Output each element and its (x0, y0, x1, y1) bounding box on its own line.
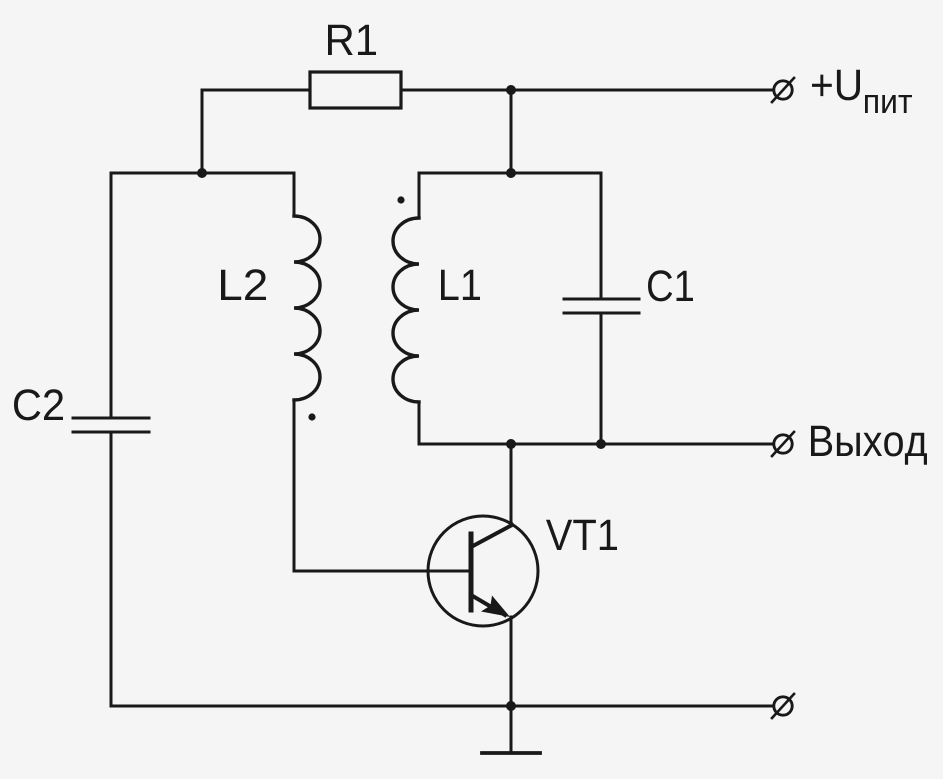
wire: tank top rail (L1 top to C1 top) (419, 172, 601, 175)
label VT1 (546, 520, 617, 550)
wire: top rail left segment (corner to R1) (202, 90, 310, 173)
terminal Выход (772, 432, 794, 456)
wire: emitter lead (510, 617, 513, 706)
wire: vertical from top rail down to tank top (510, 90, 513, 173)
capacitor C2 (73, 173, 149, 706)
inductor L1 (393, 173, 419, 444)
node: L1 polarity dot (397, 196, 404, 203)
node: junction dot at (511,444) (506, 439, 516, 449)
label C1 (648, 270, 693, 301)
ground (482, 706, 540, 753)
node: junction dot at (202,173) (197, 168, 207, 178)
capacitor C1 (564, 173, 639, 444)
label Выход (811, 426, 927, 465)
node: junction dot at (601,444) (596, 439, 606, 449)
label C2 (14, 389, 63, 420)
wire: left horizontal at y=173 (C2 top to L2 top) (111, 172, 294, 175)
label +Uпит (812, 70, 860, 101)
node: L2 polarity dot (308, 413, 315, 420)
node: junction dot at (511,173) (506, 168, 516, 178)
node: junction dot at R1 branch / collector rail (506, 85, 516, 95)
wire: bottom ground rail (111, 705, 773, 708)
inductor L2 (294, 173, 320, 571)
label L1 (441, 270, 480, 300)
wire: tank bottom rail to Выход terminal (419, 443, 773, 446)
terminal +Uпит (772, 78, 794, 102)
node: junction dot at (511,706) (506, 701, 516, 711)
label R1 (328, 25, 376, 55)
label L2 (221, 269, 266, 300)
terminal ground (right) (772, 694, 794, 718)
wire: collector lead (510, 444, 513, 525)
wire: R1 right to +U terminal (401, 89, 773, 92)
wire: base wire from L2 to base bar (294, 570, 469, 573)
transistor VT1 (428, 516, 538, 626)
resistor R1 (310, 72, 401, 108)
